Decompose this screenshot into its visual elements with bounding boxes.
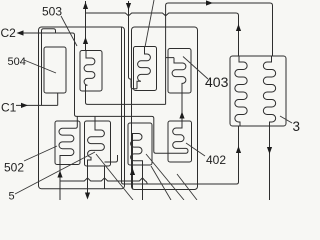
long wire down the middle to bottom right and across to box 3 (122, 28, 239, 185)
leader 502 (24, 146, 57, 161)
coil outlet hook (105, 155, 118, 162)
heat exchanger 503 coil (84, 51, 95, 105)
arrow up above 503 (83, 37, 88, 44)
arrow up into 502 (57, 171, 62, 178)
leader cut bottom a (96, 154, 133, 200)
bottom wire to box 3 left coil (with hops) (60, 178, 147, 184)
coil (bottom right module, left) with stubs (131, 134, 143, 201)
leader cut bottom c (146, 154, 184, 200)
wire from 503 bottom across to riser (88, 103, 166, 105)
coil (bottom left module, right) (88, 116, 105, 196)
coil box (bottom left module, right) (85, 121, 111, 166)
vessel 504 (44, 47, 66, 93)
outlet wire down from box 3 right coil (269, 126, 271, 200)
heat exchanger 503 box (80, 51, 102, 92)
heat exchanger 403 box (168, 49, 191, 94)
svg-text:403: 403 (205, 74, 229, 90)
arrow right on top wire (206, 0, 213, 5)
arrow left C2 (17, 30, 24, 35)
svg-text:502: 502 (4, 161, 24, 175)
leader 503 (61, 16, 77, 46)
enclosure box (right module) (132, 27, 198, 190)
heat exchanger 502 box (55, 121, 80, 165)
inlet C1 wire with branches (16, 29, 58, 106)
svg-text:3: 3 (293, 119, 301, 134)
wire stub from box bottom (104, 166, 106, 189)
svg-text:503: 503 (42, 5, 62, 19)
svg-text:C1: C1 (1, 101, 17, 115)
svg-text:504: 504 (8, 56, 26, 68)
arrow down from image top (126, 3, 131, 10)
wire from 503 up through top edge (85, 1, 87, 51)
heat exchanger 502 coil with stubs (59, 116, 77, 200)
enclosure box 5 (left module) (39, 27, 125, 189)
svg-text:5: 5 (9, 191, 15, 201)
leader 3 (280, 116, 292, 123)
leader 403 (183, 57, 208, 80)
arrow down on outlet (267, 147, 272, 154)
leader 5 (15, 152, 95, 194)
arrow up into 403 from 402 (179, 112, 184, 119)
svg-text:402: 402 (206, 153, 226, 167)
wire from box 3 left coil to top-left (with crossover hops) (86, 13, 239, 56)
heat exchanger 403 coil and link wire down to 402 (172, 58, 186, 121)
coil box (top right module, left) (134, 47, 157, 91)
leader 504 (24, 60, 56, 73)
outlet C2 wire down middle-left to 402 bottom (20, 33, 169, 153)
heat exchanger 3 box (230, 56, 286, 126)
heat exchanger 402 coil (169, 121, 189, 153)
arrow up on box 3 left riser (236, 24, 241, 31)
arrow up into bottom-right coil box (130, 168, 135, 175)
leader cut bottom e (177, 174, 197, 200)
arrow up near image top (83, 2, 88, 9)
inlet stub below box (132, 165, 134, 190)
coil box (bottom right module, left) (128, 123, 152, 165)
wire from image top down to coil box (with jog) (129, 1, 138, 89)
leader cut bottom d (151, 166, 171, 200)
branch wire down into bottom-left second box (94, 116, 96, 121)
box 3 right coil (263, 56, 275, 126)
box 3 left coil (235, 56, 247, 126)
leader 402 (186, 143, 205, 156)
arrow right C1 (21, 103, 28, 108)
arrow up into box 3 (236, 146, 241, 153)
heat exchanger 402 box (168, 121, 192, 162)
arrow down at image bottom (85, 193, 90, 200)
leader cut at top (145, 0, 154, 47)
wire from 403 coil up across top to box 3 right coil (166, 3, 273, 104)
svg-text:C2: C2 (1, 26, 17, 40)
coil (top right module, left) (137, 47, 150, 89)
